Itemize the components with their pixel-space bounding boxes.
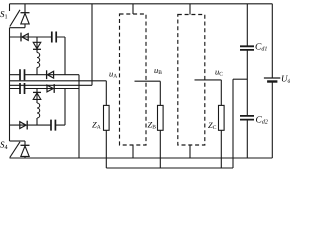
wire riser to top rail (91, 4, 93, 86)
svg-text:ZC: ZC (208, 120, 217, 131)
wire right connector row1-row2 (64, 37, 66, 75)
switch S4 blade (10, 142, 20, 158)
wire row2 (10, 74, 80, 76)
capacitor row2 (20, 69, 25, 80)
diode D1 (antiparallel S1) (21, 13, 30, 24)
wire diode D4 bottom lead (24, 156, 26, 158)
wire right connector row3-row4 (64, 89, 66, 126)
impedance ZB (158, 105, 164, 130)
svg-text:uA: uA (109, 69, 117, 80)
wire neutral riser (232, 79, 234, 168)
wire box1 bottom stub (132, 145, 134, 158)
wire ZB bottom leg (159, 130, 161, 168)
svg-text:Cd2: Cd2 (256, 116, 268, 126)
dashed phase-leg box C (178, 15, 205, 146)
wire Ud source leg (271, 4, 273, 158)
wire output rail uA (10, 80, 107, 82)
wire S4 cell top bar (10, 140, 26, 142)
wire row1 (10, 36, 66, 38)
wire row3 (10, 88, 80, 90)
wire ZA bottom leg (105, 130, 107, 168)
impedance ZA (104, 105, 110, 130)
svg-text:S1: S1 (0, 9, 8, 20)
svg-text:S4: S4 (0, 140, 8, 151)
wire vertical x79 to bottom rail (78, 75, 80, 158)
wire down branch lower (36, 89, 38, 126)
svg-text:Cd1: Cd1 (255, 42, 267, 52)
diode row4 (points right) (20, 121, 27, 130)
diode D4 (antiparallel S4) (21, 145, 30, 156)
source Ud (264, 77, 280, 79)
svg-text:uC: uC (215, 67, 223, 78)
wire top DC+ rail (10, 3, 273, 5)
capacitor Cd1 (240, 46, 254, 50)
inductor L1 (37, 53, 40, 68)
wire ZC bottom leg (220, 130, 222, 168)
diode row3 (points right) (47, 84, 54, 93)
wire left bus main (9, 28, 11, 141)
wire box2 bottom stub (189, 145, 191, 158)
wire diode D1 top lead (24, 4, 26, 13)
wire down branch upper (36, 37, 38, 75)
diode up (lower clamp) (33, 92, 41, 99)
wire neutral rail (106, 167, 233, 169)
wire left bus top stub (9, 4, 11, 11)
svg-text:ZB: ZB (148, 119, 157, 130)
dashed phase-leg box B (120, 14, 147, 145)
wire box2 top stub (189, 4, 191, 15)
wire bottom DC- rail (10, 157, 273, 159)
inductor L2 (37, 103, 40, 118)
wire diode D1 bottom lead (24, 24, 26, 28)
wire ZA feed (105, 81, 107, 106)
wire S1 cell bottom bar (10, 27, 26, 29)
wire midpoint tap (233, 78, 247, 80)
impedance ZC (219, 105, 225, 130)
diode row2 (points left) (47, 70, 54, 79)
svg-text:ZA: ZA (92, 119, 101, 130)
wire DC-link capacitor leg (246, 4, 248, 158)
svg-text:Ud: Ud (281, 74, 290, 85)
diode down (upper clamp) (33, 42, 41, 49)
svg-text:uB: uB (154, 65, 162, 76)
diode row1 (points left) (21, 33, 28, 42)
wire uB output (135, 81, 161, 105)
capacitor row3 (20, 83, 25, 94)
capacitor Cd2 (240, 116, 254, 120)
wire row4 (10, 124, 66, 126)
wire box1 top stub (132, 4, 134, 14)
wire rail2 (10, 84, 93, 86)
wire uC output (195, 80, 222, 106)
wire diode D4 top lead (24, 141, 26, 145)
switch S1 blade (10, 10, 20, 27)
capacitor row4 (51, 120, 55, 131)
capacitor row1 (52, 32, 56, 43)
